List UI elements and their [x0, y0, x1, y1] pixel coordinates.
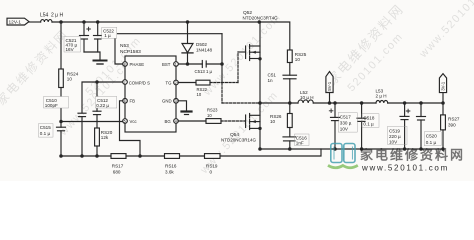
svg-text:220 µ: 220 µ: [389, 134, 401, 139]
node switch Q54 drain: [258, 101, 262, 105]
svg-text:NTD20NC3R14G: NTD20NC3R14G: [221, 138, 257, 143]
diode D502: [182, 22, 193, 64]
resistor RS20: [95, 128, 100, 156]
svg-text:1 µ: 1 µ: [104, 33, 111, 38]
svg-text:N53: N53: [120, 43, 129, 49]
capacitor C519 value label: [388, 126, 408, 144]
capacitor C513: [202, 61, 222, 68]
capacitor C512 value label: [95, 97, 117, 109]
node 5V tag: [328, 101, 332, 105]
svg-text:390: 390: [448, 123, 456, 128]
svg-text:10: 10: [270, 119, 276, 124]
resistor RS19: [205, 154, 221, 159]
pin 4 BG circle: [174, 119, 179, 124]
net tag 12V-1 text: [9, 20, 22, 26]
svg-text:BST: BST: [162, 62, 171, 67]
node FB divider: [138, 154, 142, 158]
svg-text:RS17: RS17: [112, 164, 124, 169]
pin 6 number and FB label: [124, 99, 136, 104]
svg-text:12V-1: 12V-1: [9, 20, 22, 26]
capacitor C518: [357, 103, 366, 149]
resistor RS25 value label: [295, 52, 307, 62]
capacitor C513 value label: [195, 69, 213, 74]
svg-text:1: 1: [175, 62, 177, 66]
pin 2 TG circle: [174, 80, 179, 85]
capacitor C517: [329, 103, 339, 149]
node C518 bottom: [360, 147, 364, 151]
svg-text:0.1 µ: 0.1 µ: [363, 122, 374, 127]
node C518 top: [360, 101, 364, 105]
svg-text:C517: C517: [340, 114, 351, 119]
pin 4 number and BG label: [165, 119, 177, 124]
svg-text:2: 2: [175, 81, 177, 85]
node COMP C512: [95, 80, 99, 84]
capacitor C520 value label: [424, 132, 441, 146]
wire caps to ground: [84, 52, 100, 60]
svg-text:RS19: RS19: [206, 164, 218, 169]
node C522 tap: [96, 20, 100, 24]
svg-text:16V: 16V: [66, 47, 75, 52]
capacitor C520: [417, 103, 426, 149]
capacitor C518 value label: [362, 114, 379, 128]
svg-text:PHASE: PHASE: [130, 62, 145, 67]
capacitor C521: [80, 22, 91, 52]
svg-text:L54: L54: [40, 13, 49, 19]
resistor RS23 gate label: [207, 108, 218, 118]
capacitor C522: [94, 22, 103, 52]
op-amp U1 IC N53 NCP1583 body: [125, 56, 176, 132]
resistor RS22 gate label: [197, 87, 208, 97]
resistor RS20 value label: [101, 130, 113, 140]
svg-text:NTD20NC3RT4G: NTD20NC3RT4G: [243, 16, 279, 21]
ground pin3: [182, 112, 192, 115]
resistor RS17: [111, 154, 126, 159]
node C517 bottom: [333, 147, 337, 151]
pin 8 number and PHASE label: [124, 62, 145, 67]
wire phase vertical: [221, 34, 223, 103]
transistor Q54: [246, 114, 260, 130]
svg-text:0.1 µ: 0.1 µ: [40, 131, 51, 136]
inductor L54: [41, 20, 52, 22]
node C519 bottom: [403, 147, 407, 151]
resistor RS16: [165, 154, 180, 159]
capacitor C510 value label: [44, 97, 69, 109]
svg-text:680: 680: [113, 169, 121, 174]
node Q52 drain tap: [258, 20, 262, 24]
svg-text:0.1 µ: 0.1 µ: [426, 140, 437, 145]
svg-text:12k: 12k: [101, 135, 109, 140]
capacitor C516 value label: [295, 134, 310, 146]
wire PHASE pin8: [115, 34, 222, 64]
svg-text:RS16: RS16: [165, 164, 177, 169]
wire 12V rail branch to RS25: [260, 22, 290, 50]
resistor RS16 value label: [165, 164, 177, 175]
capacitor C522 value label: [102, 27, 117, 38]
pin 5 number and Vcc label: [124, 119, 138, 124]
net tag 12V-1: [7, 18, 29, 25]
pin 1 BST circle: [174, 62, 179, 67]
net tag 3V-1 text: [441, 81, 446, 91]
wire FB pin jog: [120, 101, 141, 156]
inductor L52 value label: [300, 90, 314, 100]
node BST D502: [186, 62, 190, 66]
capacitor C521 value label: [64, 37, 81, 53]
svg-text:1N4148: 1N4148: [196, 47, 213, 52]
svg-text:100pF: 100pF: [45, 103, 58, 108]
wire output rail: [313, 102, 376, 104]
pin 6 FB circle: [123, 99, 128, 104]
capacitor C511 snubber: [283, 75, 297, 103]
node C517 top: [333, 101, 337, 105]
pin 1 number and BST label: [162, 62, 177, 67]
svg-text:COMP/D S: COMP/D S: [129, 80, 150, 85]
wire switch node horizontal: [222, 102, 298, 104]
node snubber output: [288, 101, 292, 105]
svg-text:家电维修资料网: 家电维修资料网: [360, 148, 465, 163]
resistor RS17 value label: [112, 164, 124, 175]
svg-text:2 µ H: 2 µ H: [376, 94, 387, 99]
svg-text:GND: GND: [162, 99, 172, 104]
capacitor C515 value label: [39, 124, 54, 138]
svg-text:C520: C520: [426, 134, 437, 139]
net tag 5V-1: [326, 72, 333, 104]
pin 3 GND circle: [174, 99, 179, 104]
node C521 tap: [82, 20, 86, 24]
svg-text:10: 10: [197, 92, 202, 97]
ground under C521 C522: [94, 61, 107, 65]
pin 2 number and TG label: [166, 80, 177, 85]
svg-text:5V-1: 5V-1: [327, 81, 332, 91]
inductor L54 value label: [40, 13, 63, 19]
resistor RS27: [441, 103, 446, 149]
svg-text:10: 10: [295, 57, 301, 62]
wire Vcc: [61, 121, 123, 123]
resistor RS24: [59, 22, 64, 122]
node Q52 body: [258, 57, 261, 60]
resistor RS26 value label: [270, 114, 282, 124]
node C519 top: [403, 101, 407, 105]
capacitor C516: [283, 137, 296, 149]
node RS24 tap: [59, 20, 63, 24]
svg-text:6: 6: [124, 99, 126, 103]
svg-text:330 µ: 330 µ: [340, 120, 352, 125]
svg-text:1n: 1n: [268, 78, 274, 83]
diode D502 value label: [196, 42, 213, 52]
transistor Q52 designator label: [243, 10, 279, 21]
svg-text:www.520101.com: www.520101.com: [361, 164, 449, 173]
svg-text:3.6k: 3.6k: [165, 169, 174, 174]
node RS20 bottom: [95, 154, 99, 158]
net tag 5V-1 text: [327, 81, 332, 91]
svg-text:C51: C51: [268, 73, 277, 78]
capacitor C510: [78, 113, 86, 156]
inductor L53: [376, 101, 388, 104]
capacitor C515: [57, 122, 66, 157]
wire output ground rail: [260, 148, 443, 150]
node Vcc C515: [59, 120, 63, 124]
svg-text:C513 1 µ: C513 1 µ: [195, 69, 213, 74]
svg-text:C515: C515: [40, 125, 51, 130]
node Q54 source ground: [258, 147, 262, 151]
capacitor C519: [400, 103, 410, 149]
inductor L53 value label: [376, 88, 387, 98]
svg-text:D502: D502: [196, 42, 207, 47]
wire output rail 2: [388, 102, 443, 104]
node Q54 body: [258, 127, 261, 130]
node C515 bottom: [59, 154, 63, 158]
node RS27 ground: [441, 147, 445, 151]
resistor RS25: [287, 50, 292, 75]
transistor Q54 designator label: [221, 132, 257, 143]
svg-text:10 µ H: 10 µ H: [300, 95, 314, 100]
svg-text:TG: TG: [166, 80, 173, 85]
resistor RS19 value label: [206, 164, 218, 175]
wire Q52 drain-source vertical: [259, 22, 261, 103]
capacitor C511 value label: [268, 73, 277, 83]
svg-text:10: 10: [207, 113, 212, 118]
node phase C513: [220, 62, 224, 66]
node C520 top: [419, 101, 423, 105]
net tag 3V-1: [439, 74, 446, 103]
watermark swoosh: [328, 165, 358, 167]
svg-text:BG: BG: [165, 119, 172, 124]
svg-text:10: 10: [67, 76, 73, 81]
svg-text:8: 8: [124, 62, 126, 66]
capacitor C517 value label: [338, 113, 357, 133]
watermark logo book: [331, 144, 355, 163]
svg-text:10V: 10V: [340, 126, 349, 131]
svg-text:7: 7: [124, 81, 126, 85]
node 3V tag RS27: [441, 101, 445, 105]
capacitor C512: [93, 82, 101, 128]
pin 8 PHASE circle: [123, 62, 128, 67]
svg-text:RS27: RS27: [448, 117, 460, 122]
svg-text:C518: C518: [363, 116, 374, 121]
svg-text:Vcc: Vcc: [130, 119, 138, 124]
svg-text:3: 3: [175, 99, 177, 103]
svg-text:0: 0: [210, 169, 213, 174]
svg-text:4: 4: [175, 119, 177, 123]
IC N53 designator label: [120, 43, 141, 55]
pin 5 Vcc circle: [123, 119, 128, 124]
wire GND pin3: [178, 101, 187, 111]
wire COMP network: [82, 82, 123, 113]
svg-text:3V-1: 3V-1: [441, 81, 446, 91]
node C520 bottom: [419, 147, 423, 151]
wire 12V rail: [52, 21, 260, 23]
svg-text:C519: C519: [389, 128, 400, 133]
pin 3 number and GND label: [162, 99, 177, 104]
svg-text:0.22 µ: 0.22 µ: [96, 103, 109, 108]
wire TG gate drive: [178, 52, 245, 85]
resistor RS26: [287, 103, 292, 137]
pin 7 COMP circle: [123, 80, 128, 85]
svg-text:5: 5: [124, 119, 126, 123]
wire Q54 drain-source vertical: [259, 103, 261, 149]
resistor RS24 value label: [67, 72, 79, 82]
node C516 ground: [288, 147, 292, 151]
resistor RS27 value label: [448, 117, 460, 128]
svg-text:NCP1583: NCP1583: [120, 49, 141, 55]
svg-text:FB: FB: [130, 99, 136, 104]
node D502 anode tap: [186, 20, 190, 24]
wire bottom feedback rail: [61, 149, 321, 156]
transistor Q52: [246, 45, 260, 61]
svg-text:1nF: 1nF: [296, 140, 304, 145]
svg-text:10V: 10V: [389, 140, 398, 145]
pin 7 number and COMP label: [124, 80, 150, 85]
svg-text:2 µ H: 2 µ H: [51, 13, 63, 19]
wire BST pin1: [178, 63, 202, 65]
inductor L52: [298, 100, 313, 103]
wire BG gate drive: [178, 119, 245, 124]
node C510 bottom: [80, 154, 84, 158]
wire 12V input: [29, 21, 41, 23]
